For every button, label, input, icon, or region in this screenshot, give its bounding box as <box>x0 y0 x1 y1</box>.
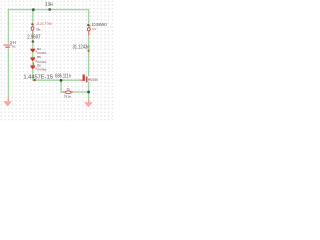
ammeter pin node <box>87 24 89 26</box>
wire lower-left vertical <box>60 80 61 93</box>
ammeter pin stub red <box>88 32 89 36</box>
wire middle vertical <box>32 9 33 81</box>
diode D6 <box>30 65 35 66</box>
svg-text:T8 9s: T8 9s <box>64 94 72 98</box>
svg-text:JL2CT79h: JL2CT79h <box>36 22 52 26</box>
transistor T1 body line <box>86 77 88 83</box>
junction node mid <box>60 79 63 82</box>
junction node bottom-right <box>87 91 90 94</box>
diode D5 <box>30 57 35 58</box>
probe marker right wire <box>87 50 89 52</box>
bottom ellipse left pin <box>63 92 66 93</box>
bottom ellipse right pin <box>70 92 73 93</box>
wire left vertical <box>8 9 9 97</box>
diode D4 <box>30 49 35 50</box>
diode D5 value <box>35 60 38 62</box>
resistor bulb (bottom ellipse) <box>66 91 72 94</box>
transistor T1 emitter pin <box>88 79 90 81</box>
transistor T1 base pin (red wire segment) <box>80 80 83 81</box>
svg-text:2N3055: 2N3055 <box>89 78 98 82</box>
lamp L2 pin node <box>31 23 33 25</box>
wire right vertical upper <box>88 9 89 76</box>
battery V1 <box>7 44 11 49</box>
ground arrow left <box>8 97 10 102</box>
voltage probe marker top <box>48 8 51 11</box>
svg-text:D6: D6 <box>37 64 41 68</box>
wire bottom horizontal <box>60 91 89 92</box>
wire right vertical lower <box>88 81 89 100</box>
transistor T1 base bar <box>83 75 85 81</box>
wire middle horizontal <box>32 80 80 81</box>
svg-text:686.111n: 686.111n <box>55 74 71 80</box>
ground arrow right <box>88 100 89 103</box>
diode D6 value <box>35 68 38 70</box>
diode D4 value <box>35 51 38 53</box>
lamp L2 (left ellipse) <box>31 27 34 31</box>
svg-text:1N4148mk: 1N4148mk <box>37 68 47 72</box>
current probe marker on corner <box>33 79 35 81</box>
voltage probe marker mid <box>32 40 34 42</box>
svg-text:78s: 78s <box>36 28 41 32</box>
ammeter probe (right ellipse) <box>88 28 91 32</box>
svg-text:1.4457E-15: 1.4457E-15 <box>23 75 53 81</box>
svg-text:7h: 7h <box>66 87 70 91</box>
lamp L2 bottom pin stub <box>32 31 33 35</box>
svg-text:3.9H: 3.9H <box>45 2 53 8</box>
svg-text:2.9607: 2.9607 <box>27 35 40 41</box>
svg-text:S1: S1 <box>12 44 16 48</box>
svg-text:D5: D5 <box>37 55 41 59</box>
svg-text:D4: D4 <box>37 47 41 51</box>
svg-text:31.1243n: 31.1243n <box>73 45 90 51</box>
junction node top <box>32 8 35 11</box>
diode D6 pin tick <box>33 62 34 65</box>
svg-text:A/V: A/V <box>92 27 97 31</box>
wire top horizontal net <box>8 9 90 10</box>
